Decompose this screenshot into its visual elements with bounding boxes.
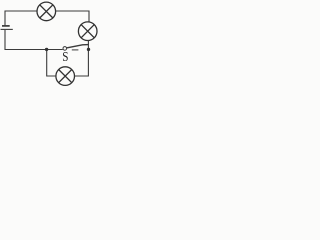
wire lamp L2 to right junction: [87, 41, 89, 50]
node right junction: [87, 48, 90, 51]
wire left junction to switch: [47, 49, 63, 51]
lamp L1: [37, 2, 56, 21]
wire left vertical upper (to battery): [4, 11, 6, 26]
svg-text:S: S: [62, 49, 68, 64]
lamp L2: [78, 22, 97, 41]
switch S pivot circle: [63, 47, 67, 51]
switch S right contact stub: [72, 49, 79, 51]
wire left vertical lower (battery to bottom): [5, 30, 47, 50]
wire top-left horizontal: [5, 10, 37, 12]
switch S blade: [67, 45, 90, 48]
battery B1 long thin plate: [1, 28, 13, 30]
wire top-right horizontal and corner drop: [56, 11, 89, 22]
node left junction: [45, 48, 48, 51]
lamp L3: [56, 67, 75, 86]
wire right vertical lower and bottom-right corner: [75, 50, 89, 77]
wire lamp L3 to left riser up to left junction: [47, 50, 56, 77]
battery B1 short thick plate: [2, 25, 10, 27]
